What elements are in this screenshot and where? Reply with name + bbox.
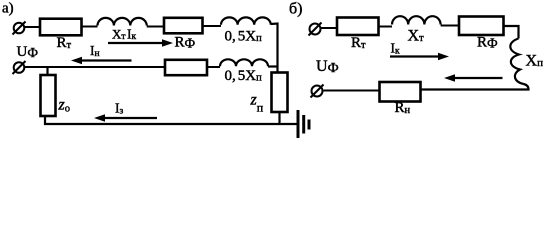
wire bbox=[147, 26, 164, 28]
wire bbox=[271, 24, 278, 73]
ground bbox=[298, 110, 309, 138]
svg-text:а): а) bbox=[2, 1, 14, 17]
wire bbox=[207, 66, 220, 68]
current arrow I_k (a) bbox=[108, 39, 173, 46]
terminal 1 bbox=[13, 22, 26, 35]
resistor R_t (a) bbox=[40, 19, 82, 36]
svg-text:XтIк: XтIк bbox=[112, 27, 137, 43]
terminal 2 bbox=[13, 61, 26, 74]
inductor X_t (a) bbox=[98, 18, 147, 26]
terminal 3 bbox=[309, 23, 322, 36]
current arrow I_n (a) bbox=[71, 57, 132, 64]
svg-text:Iк: Iк bbox=[391, 41, 401, 57]
svg-text:Rт: Rт bbox=[57, 35, 72, 51]
current arrow (b) bbox=[444, 74, 503, 81]
wire bbox=[278, 112, 280, 124]
wire bbox=[24, 26, 40, 28]
svg-text:zп: zп bbox=[250, 92, 264, 115]
current arrow I_z (a) bbox=[94, 114, 157, 121]
svg-text:UФ: UФ bbox=[316, 58, 339, 76]
resistor R_f (a) bbox=[164, 18, 203, 34]
impedance Z_0 box bbox=[41, 75, 56, 116]
inductor 0,5X_p top (a) bbox=[221, 17, 271, 24]
wire bbox=[46, 67, 48, 75]
svg-text:RФ: RФ bbox=[175, 35, 196, 51]
wire bbox=[25, 66, 166, 68]
terminal 4 bbox=[311, 85, 324, 98]
wire corner (b) bbox=[421, 84, 529, 90]
resistor R_f (b) bbox=[459, 17, 504, 36]
inductor X_p vertical (b) bbox=[510, 39, 523, 85]
resistor R_t (b) bbox=[337, 18, 379, 36]
wire bbox=[82, 26, 98, 28]
svg-text:Xп: Xп bbox=[526, 53, 544, 70]
wire bbox=[44, 116, 46, 125]
wire bbox=[324, 90, 380, 92]
wire bbox=[203, 25, 222, 27]
svg-text:UФ: UФ bbox=[17, 44, 39, 60]
bottom wire (a) bbox=[44, 123, 297, 125]
svg-text:Iн: Iн bbox=[90, 43, 100, 59]
resistor R_n (b) bbox=[380, 82, 421, 102]
wire bbox=[268, 65, 279, 67]
svg-text:б): б) bbox=[289, 1, 302, 18]
svg-text:zо: zо bbox=[58, 97, 70, 115]
wire bbox=[379, 26, 393, 28]
svg-text:0,5Xп: 0,5Xп bbox=[225, 29, 263, 45]
svg-text:Xт: Xт bbox=[408, 28, 425, 45]
svg-text:RФ: RФ bbox=[477, 35, 498, 51]
svg-text:0,5Xп: 0,5Xп bbox=[225, 68, 263, 84]
inductor X_t (b) bbox=[392, 16, 441, 24]
svg-text:Rт: Rт bbox=[351, 35, 366, 51]
wire bbox=[441, 25, 459, 27]
wire bbox=[504, 26, 519, 39]
resistor middle (a) bbox=[165, 60, 207, 75]
svg-text:Iз: Iз bbox=[115, 101, 124, 117]
current arrow I_k (b) bbox=[390, 53, 449, 60]
impedance Z_p box bbox=[272, 73, 288, 113]
inductor 0,5X_p middle (a) bbox=[220, 59, 268, 66]
wire bbox=[321, 27, 337, 29]
